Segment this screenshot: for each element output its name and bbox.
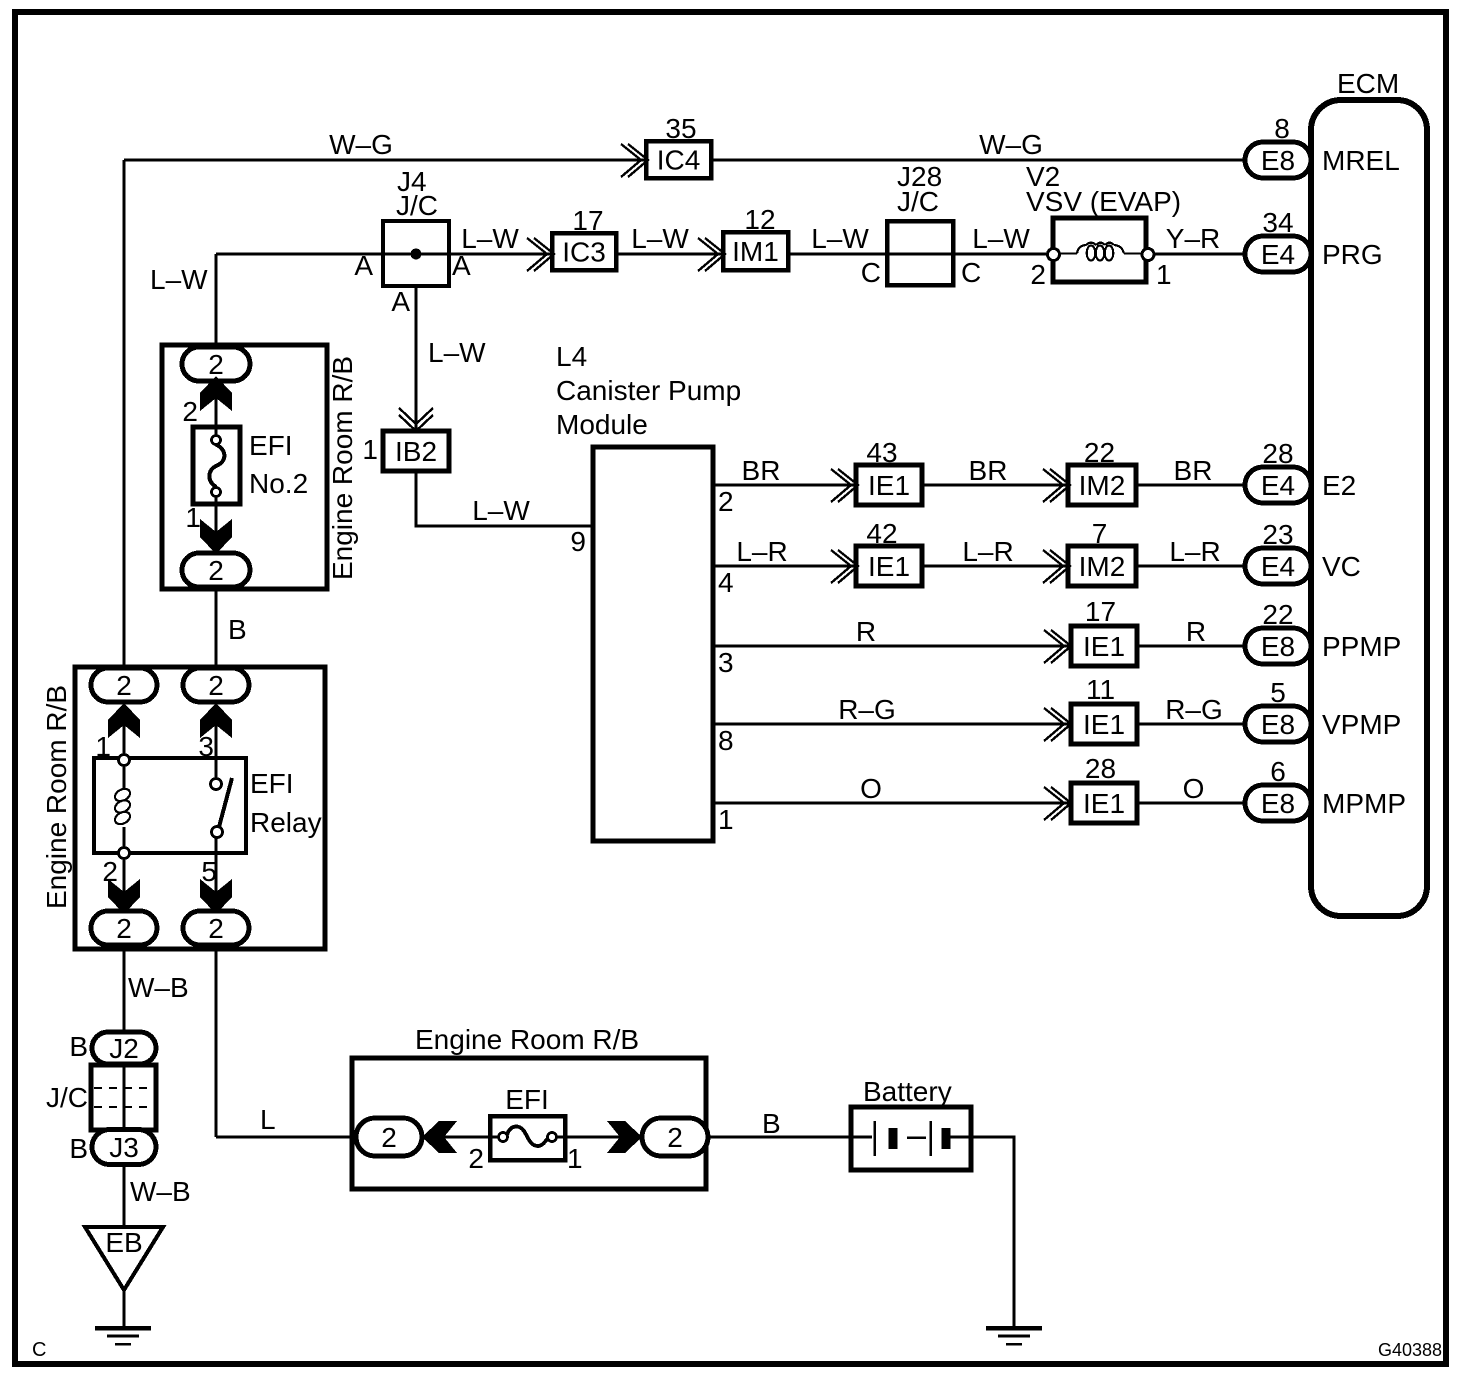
svg-text:1: 1 [95,731,111,762]
svg-text:EFI: EFI [250,768,294,799]
svg-text:23: 23 [1262,519,1293,550]
svg-text:B: B [69,1133,88,1164]
svg-text:MREL: MREL [1322,145,1400,176]
svg-text:C: C [861,257,881,288]
svg-text:8: 8 [718,725,734,756]
svg-text:2: 2 [102,856,118,887]
svg-text:2: 2 [468,1143,484,1174]
svg-text:IM1: IM1 [732,236,779,267]
svg-text:VPMP: VPMP [1322,709,1401,740]
svg-text:3: 3 [198,731,214,762]
svg-text:L–W: L–W [472,495,530,526]
svg-text:C: C [32,1339,46,1361]
svg-text:5: 5 [201,856,217,887]
svg-text:IM2: IM2 [1079,551,1126,582]
svg-text:11: 11 [1086,674,1115,705]
svg-text:2: 2 [1030,259,1046,290]
svg-text:IE1: IE1 [1083,788,1125,819]
svg-text:No.2: No.2 [249,468,308,499]
svg-text:22: 22 [1262,599,1293,630]
svg-text:E8: E8 [1261,788,1295,819]
svg-text:L: L [260,1104,276,1135]
svg-text:BR: BR [969,455,1008,486]
svg-text:PRG: PRG [1322,239,1383,270]
svg-text:Engine Room R/B: Engine Room R/B [41,685,72,909]
svg-text:2: 2 [381,1122,397,1153]
svg-text:Relay: Relay [250,807,322,838]
svg-text:E4: E4 [1261,551,1295,582]
svg-text:L–W: L–W [811,223,869,254]
svg-text:E8: E8 [1261,631,1295,662]
svg-text:VSV (EVAP): VSV (EVAP) [1026,186,1181,217]
svg-text:E4: E4 [1261,470,1295,501]
svg-text:17: 17 [572,205,603,236]
svg-text:PPMP: PPMP [1322,631,1401,662]
svg-text:C: C [961,257,981,288]
svg-text:7: 7 [1092,518,1108,549]
svg-text:22: 22 [1084,437,1115,468]
svg-text:E8: E8 [1261,145,1295,176]
svg-text:28: 28 [1262,438,1293,469]
svg-text:Battery: Battery [863,1076,952,1107]
svg-text:IB2: IB2 [395,436,437,467]
svg-text:9: 9 [570,526,586,557]
svg-text:W–G: W–G [979,129,1043,160]
svg-text:Engine Room R/B: Engine Room R/B [415,1024,639,1055]
svg-text:12: 12 [744,204,775,235]
svg-text:E8: E8 [1261,709,1295,740]
svg-text:J/C: J/C [396,190,438,221]
svg-text:L–W: L–W [150,264,208,295]
svg-text:2: 2 [208,349,224,380]
svg-text:A: A [452,250,471,281]
svg-text:2: 2 [667,1122,683,1153]
svg-text:1: 1 [1156,259,1172,290]
svg-text:A: A [391,286,410,317]
svg-text:G40388: G40388 [1378,1340,1442,1360]
svg-text:2: 2 [208,913,224,944]
svg-text:L4: L4 [556,341,587,372]
svg-text:L–W: L–W [972,223,1030,254]
svg-text:42: 42 [866,518,897,549]
svg-text:L–R: L–R [736,536,787,567]
svg-text:EB: EB [105,1227,142,1258]
svg-text:W–B: W–B [130,1176,191,1207]
svg-text:IC4: IC4 [657,145,701,176]
svg-text:IM2: IM2 [1079,470,1126,501]
svg-text:BR: BR [742,455,781,486]
svg-text:2: 2 [718,486,734,517]
svg-text:O: O [1183,773,1205,804]
svg-text:3: 3 [718,647,734,678]
svg-text:L–R: L–R [1169,536,1220,567]
svg-text:Engine Room R/B: Engine Room R/B [327,356,358,580]
svg-text:1: 1 [718,804,734,835]
svg-text:43: 43 [866,437,897,468]
svg-text:L–R: L–R [962,536,1013,567]
svg-text:Canister Pump: Canister Pump [556,375,741,406]
svg-text:VC: VC [1322,551,1361,582]
svg-text:E2: E2 [1322,470,1356,501]
svg-text:2: 2 [116,670,132,701]
svg-text:R: R [856,616,876,647]
svg-text:BR: BR [1174,455,1213,486]
svg-text:4: 4 [718,567,734,598]
svg-text:R–G: R–G [838,694,896,725]
svg-text:R: R [1186,616,1206,647]
svg-text:J3: J3 [109,1132,139,1163]
svg-text:2: 2 [208,555,224,586]
svg-text:W–B: W–B [128,972,189,1003]
svg-text:28: 28 [1085,753,1116,784]
svg-text:L–W: L–W [428,337,486,368]
svg-text:A: A [354,250,373,281]
svg-text:J/C: J/C [897,186,939,217]
svg-text:IE1: IE1 [868,551,910,582]
svg-text:IC3: IC3 [562,237,606,268]
svg-text:8: 8 [1274,113,1290,144]
svg-text:B: B [228,614,247,645]
svg-text:Y–R: Y–R [1166,223,1220,254]
svg-text:MPMP: MPMP [1322,788,1406,819]
svg-text:1: 1 [567,1143,583,1174]
svg-text:34: 34 [1262,207,1293,238]
svg-text:2: 2 [116,913,132,944]
svg-text:2: 2 [208,670,224,701]
svg-text:EFI: EFI [249,430,293,461]
svg-text:IE1: IE1 [1083,709,1125,740]
svg-text:IE1: IE1 [868,470,910,501]
svg-text:L–W: L–W [631,223,689,254]
svg-text:1: 1 [185,502,201,533]
svg-text:35: 35 [665,113,696,144]
svg-text:EFI: EFI [505,1084,549,1115]
svg-text:2: 2 [182,396,198,427]
svg-text:B: B [69,1031,88,1062]
svg-text:1: 1 [362,434,378,465]
svg-text:5: 5 [1270,677,1286,708]
svg-text:R–G: R–G [1165,694,1223,725]
svg-text:IE1: IE1 [1083,631,1125,662]
svg-text:ECM: ECM [1337,68,1399,99]
svg-text:W–G: W–G [329,129,393,160]
svg-text:J/C: J/C [46,1082,88,1113]
svg-text:E4: E4 [1261,239,1295,270]
svg-text:6: 6 [1270,756,1286,787]
svg-text:B: B [762,1108,781,1139]
svg-text:Module: Module [556,409,648,440]
svg-text:O: O [860,773,882,804]
svg-text:17: 17 [1085,596,1116,627]
svg-text:J2: J2 [109,1033,139,1064]
